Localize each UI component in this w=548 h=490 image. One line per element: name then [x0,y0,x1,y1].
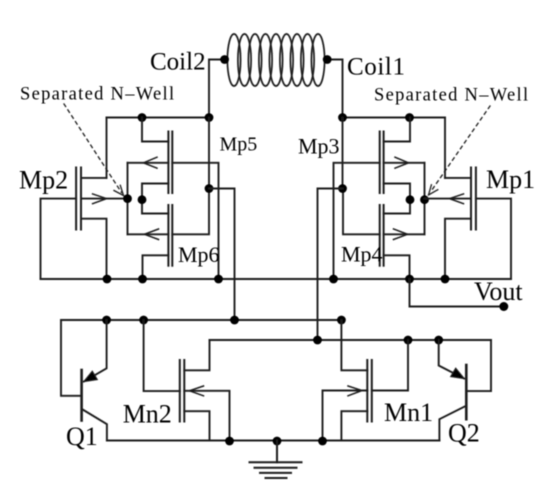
transistor Mn1 [367,360,372,422]
svg-text:Q1: Q1 [66,422,98,451]
node ground stub [273,437,282,446]
svg-text:Separated N–Well: Separated N–Well [374,86,529,106]
node Mp3 drain / Mp4 source [406,195,415,204]
Q2 collector wire [439,406,465,440]
svg-text:Q2: Q2 [448,419,480,448]
Mn2 bulk arrow [190,386,204,396]
Mp6 gate wire [172,189,209,235]
wire right rail down to Mp1 source [444,118,446,178]
transistor Mp6 [168,205,172,266]
Mp2 source stub [81,177,107,179]
Mn1 bulk stub [323,391,368,441]
wire ground rail [107,440,440,442]
transistor Mp4 [380,205,384,266]
wire node B cross to lower line [318,189,343,341]
Mp5 bulk arrow [144,157,158,168]
wire Vout tap [410,279,504,307]
node Q1 emitter on rail [102,316,111,325]
wire node A vertical [208,118,210,189]
node coil1 terminal [323,55,332,64]
Mp2 gate wire loop [41,199,77,279]
node Mn1 gate on line [404,336,413,345]
Q2 base bar [465,365,468,419]
Mn2 drain stub [184,340,209,370]
node A coil2/rail junction [205,113,214,122]
Mp1 drain stub [445,219,471,279]
Mn1 drain stub [341,320,367,370]
node B lower junction [338,184,347,193]
wire left top rail [107,117,210,119]
svg-text:Mn2: Mn2 [123,400,172,429]
wire left n-well bulk line [127,163,129,235]
node Mp5 gate on rail [214,275,223,284]
Mp2 bulk arrow [93,194,107,204]
ground [250,441,302,479]
wire right top rail [343,117,446,119]
node left n-well [123,194,132,203]
Mn2 bulk stub [184,391,229,441]
Mp4 gate wire [343,189,380,235]
svg-text:Mp6: Mp6 [178,242,220,267]
Q1 collector wire [83,410,107,441]
Mp6 bulk stub [128,233,169,235]
Mp4 drain stub [384,255,410,279]
svg-text:Coil1: Coil1 [347,54,406,81]
svg-text:Mp1: Mp1 [486,165,535,194]
dashed pointer left n-well [64,104,124,196]
Q1 emitter arrow [84,371,97,381]
node Mn2 gate on rail [139,316,148,325]
Mp5 bulk stub [128,162,169,164]
Mp3 bulk stub [384,162,425,164]
Q2 emitter arrow [451,368,464,378]
Mp6 source stub [142,200,168,214]
Mp5 gate wire [172,163,218,279]
node right rail junction [405,113,414,122]
node Mp1 drain on rail [441,275,450,284]
Mp3 drain stub [384,184,410,200]
transistor Mp1 [471,168,476,230]
node right n-well [420,195,429,204]
Mn2 gate wire [144,320,180,391]
transistor Mp5 [168,132,172,194]
Mp3 bulk arrow [395,157,409,168]
svg-text:Mn1: Mn1 [384,398,433,427]
node Mp6 drain on rail [138,275,147,284]
dashed pointer right n-well [429,106,491,195]
Mp2 drain stub [81,219,107,279]
svg-text:Mp4: Mp4 [341,242,383,267]
node Mn1 bulk on ground rail [318,437,327,446]
Mn1 bulk arrow [348,386,362,396]
transistor Mn2 [180,360,185,422]
wire node A cross to lower rail [209,189,235,321]
Mp1 bulk stub [425,198,472,200]
wire coil right lead [325,60,343,118]
node Mn1 drain on rail [337,316,346,325]
node B coil1/rail junction [338,113,347,122]
Mp5 source stub [142,118,168,142]
node Mp5 drain / Mp6 source [138,195,147,204]
node Vout terminal [499,302,508,311]
svg-text:Mp3: Mp3 [298,134,340,159]
transistor Q2 [468,340,492,391]
node Mp2 drain on rail [103,275,112,284]
node coil2 terminal [220,55,229,64]
Mp2 bulk stub [81,198,128,200]
svg-text:Separated N–Well: Separated N–Well [20,85,175,105]
Q2 emitter wire [439,340,464,379]
Mp4 bulk arrow [394,229,408,240]
Mp6 bulk arrow [145,229,159,240]
Mn1 source stub [341,411,367,440]
wire coil left lead [209,60,228,118]
Mp6 drain stub [143,255,169,279]
transistor Q1 [61,320,81,396]
Mp1 gate wire loop [476,199,511,279]
wire lower rail node A [61,319,341,321]
transistor Mp3 [380,132,384,194]
node Mp4 drain on rail [405,275,414,284]
svg-text:Coil2: Coil2 [150,49,206,76]
wire node B vertical [342,118,344,189]
svg-text:Vout: Vout [474,277,523,306]
Mp4 bulk stub [384,233,425,235]
svg-text:Mp5: Mp5 [220,134,258,156]
inductor coil (Coil1/Coil2) [227,34,324,86]
node Q2 emitter on line [434,336,443,345]
svg-text:Mp2: Mp2 [19,166,68,195]
node B cross on line [313,336,322,345]
transistor Mp2 [76,168,81,230]
node Mp3 gate on rail [329,275,338,284]
node Mn2 bulk on ground rail [225,437,234,446]
wire right n-well bulk line [424,163,426,235]
wire mid supply rail [41,278,512,280]
node A cross on rail [230,316,239,325]
Mp1 source stub [445,177,471,179]
Mn1 gate wire [372,340,408,391]
node A lower junction [205,184,214,193]
wire left rail down to Mp2 source [106,118,108,178]
wire lower line node B [210,339,492,341]
Q1 emitter wire [84,320,107,382]
Mp1 bulk arrow [450,194,464,204]
Mn2 source stub [184,411,209,440]
Q1 base bar [80,370,83,421]
Mp3 source stub [384,118,410,142]
Mp4 source stub [384,200,410,214]
node left rail junction [138,113,147,122]
Mp5 drain stub [142,184,168,200]
Mp3 gate wire [334,163,380,279]
